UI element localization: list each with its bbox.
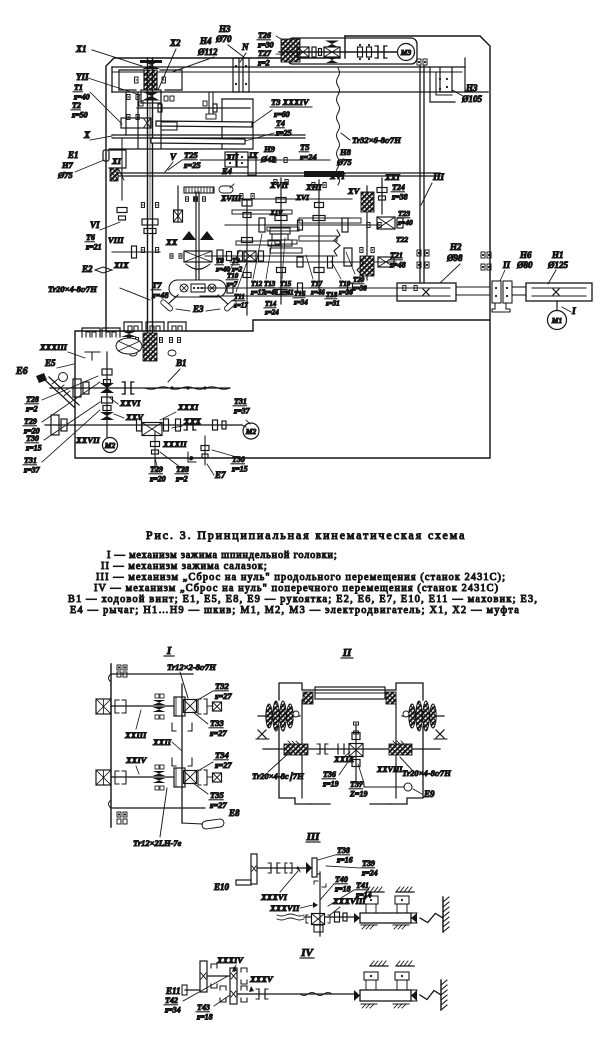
top motor housing [287, 38, 417, 64]
central shaft XXII [181, 684, 183, 823]
svg-text:T6: T6 [86, 233, 95, 242]
svg-text:Ø75: Ø75 [336, 157, 352, 167]
bearing pairs on right frame [481, 252, 485, 258]
svg-text:T15: T15 [280, 280, 292, 288]
shaft IV [237, 993, 354, 995]
svg-text:X2: X2 [169, 38, 181, 48]
rack T4 [151, 138, 245, 144]
svg-text:Tr32×6-8c∕7H: Tr32×6-8c∕7H [352, 135, 401, 145]
coupling III [270, 863, 272, 873]
svg-text:I: I [166, 645, 172, 657]
clamp gear X [184, 251, 212, 262]
shaft XXIII [111, 705, 174, 707]
svg-text:T28: T28 [26, 395, 39, 404]
svg-text:T29: T29 [24, 417, 37, 426]
svg-text:XVII: XVII [269, 180, 289, 190]
svg-text:z=15: z=15 [231, 465, 248, 474]
svg-text:XXXVII: XXXVII [269, 903, 300, 913]
svg-text:z=38: z=38 [352, 285, 367, 293]
clutch X2 [141, 90, 161, 103]
xbox feed2 [378, 257, 394, 267]
svg-text:Z=19: Z=19 [349, 790, 367, 799]
rail IV [360, 990, 411, 1001]
svg-text:T32: T32 [215, 681, 229, 691]
bracket pair vert III [314, 881, 318, 884]
svg-text:Tr20×4-8c∣7H: Tr20×4-8c∣7H [252, 771, 304, 781]
clamp bar II [315, 687, 385, 699]
xbox feed [377, 217, 395, 229]
housing XI box [109, 150, 126, 168]
svg-text:T3 XXXIV: T3 XXXIV [271, 97, 310, 107]
knob E9 [404, 783, 412, 791]
gear cluster c [227, 283, 233, 293]
gear cluster a [259, 218, 265, 232]
wall III [442, 897, 444, 932]
left inner bracket [125, 92, 127, 135]
shifter bar 6 [299, 236, 337, 241]
svg-text:z=41: z=41 [279, 289, 294, 297]
svg-text:T12: T12 [251, 280, 263, 288]
svg-text:XXXII: XXXII [162, 439, 187, 449]
top rail I [111, 673, 193, 675]
svg-text:E6: E6 [15, 366, 28, 377]
svg-text:z=38: z=38 [391, 193, 408, 202]
frame I left wall [110, 664, 112, 827]
svg-text:XX: XX [165, 237, 178, 247]
svg-text:XIX: XIX [113, 260, 129, 270]
support 2 IV [396, 965, 414, 967]
svg-text:T7: T7 [152, 280, 162, 290]
svg-text:III: III [432, 173, 444, 183]
svg-text:T10: T10 [227, 272, 239, 280]
funnel arcs [186, 264, 210, 269]
svg-text:Tr12×2-8c∕7H: Tr12×2-8c∕7H [167, 662, 216, 672]
xbox XXXII [142, 423, 162, 436]
top shaft M3 [279, 51, 398, 53]
svg-text:T23: T23 [398, 209, 410, 218]
clamp pairs under combs [128, 338, 131, 343]
svg-text:II: II [342, 647, 352, 659]
foot hatch III b [393, 924, 409, 926]
svg-text:T1: T1 [74, 83, 83, 92]
shaft XXXIV IV [207, 975, 230, 977]
gear cluster left edge [73, 379, 81, 397]
svg-text:XXXIV: XXXIV [216, 955, 244, 965]
pulley H3 bracket [440, 68, 452, 92]
svg-text:H7: H7 [61, 160, 74, 170]
svg-text:T14: T14 [265, 300, 277, 308]
svg-text:T34: T34 [215, 750, 229, 760]
svg-text:XXIII: XXIII [124, 730, 147, 740]
svg-text:T42: T42 [165, 996, 178, 1005]
svg-text:II: II [502, 260, 511, 270]
svg-text:z=21: z=21 [85, 243, 102, 252]
bevel hatched XX pair [182, 231, 196, 240]
svg-text:z=25: z=25 [275, 129, 292, 138]
worm wheel XX [143, 333, 157, 361]
vertical screw III shaft [419, 66, 421, 283]
right pulley stack [402, 715, 444, 717]
svg-text:T38: T38 [337, 846, 350, 855]
svg-text:H1: H1 [551, 250, 564, 260]
svg-text:Tr20×4-8c∕7H: Tr20×4-8c∕7H [48, 284, 97, 294]
svg-text:E1: E1 [67, 150, 79, 160]
bracket pair XXIV [115, 771, 119, 784]
svg-text:XXXVI: XXXVI [260, 892, 288, 902]
svg-text:VIII: VIII [108, 235, 124, 245]
bearing marks bottom I [117, 812, 121, 817]
support 1 III [366, 891, 384, 893]
motor M2 right [243, 423, 259, 439]
svg-text:E5: E5 [44, 358, 56, 368]
svg-text:z=18: z=18 [334, 885, 351, 894]
svg-text:z=34: z=34 [164, 1006, 181, 1015]
apron top combs [82, 328, 100, 337]
gear cluster b [297, 257, 303, 267]
svg-text:z=46: z=46 [263, 289, 278, 297]
rack anchor block [161, 122, 177, 130]
bearing housing XXIV [96, 770, 111, 785]
svg-text:XXXIII: XXXIII [39, 342, 68, 352]
bevel gears top III [306, 862, 312, 874]
wall IV [440, 980, 442, 1010]
svg-text:XVI: XVI [329, 171, 345, 181]
bevel gears X [325, 41, 339, 48]
svg-text:z=60: z=60 [273, 110, 290, 119]
spindle housing walls [137, 93, 139, 148]
svg-text:XXII: XXII [152, 737, 172, 747]
coupling II b [337, 744, 339, 754]
svg-text:T17: T17 [311, 280, 323, 288]
bracket left worm [85, 351, 100, 353]
vertical link x155 [154, 432, 156, 470]
svg-text:IV — механизм „Сброс на нуль": IV — механизм „Сброс на нуль" поперечног… [94, 583, 499, 594]
frame II [279, 683, 423, 700]
drum circle right [208, 284, 216, 292]
shaft XV vertical [366, 186, 368, 280]
xbox T32 [184, 700, 197, 713]
machine outer frame [106, 58, 340, 330]
bearing pairs gearbox [274, 180, 277, 185]
rack T3 [156, 121, 252, 127]
svg-text:T35: T35 [210, 790, 224, 800]
crossed box handle XXIV [213, 773, 222, 782]
central gear column [270, 228, 290, 234]
gearbox shaft IX [200, 159, 330, 161]
gear mid [100, 383, 114, 393]
shaft XXI vertical [381, 178, 383, 214]
pulley H5 hatched [281, 39, 300, 62]
svg-text:H3: H3 [218, 24, 231, 34]
svg-text:T37: T37 [350, 780, 364, 789]
apron shaft XXX [45, 424, 242, 426]
svg-text:Tr12×2LH-7e: Tr12×2LH-7e [133, 838, 182, 848]
svg-text:T31: T31 [234, 397, 247, 406]
svg-text:э: э [189, 454, 193, 462]
svg-text:T24: T24 [392, 183, 405, 192]
svg-text:XI: XI [111, 156, 122, 166]
screw shaft II [263, 748, 440, 750]
bevel bottom III [312, 914, 325, 925]
svg-text:Tr20×4-8c∕7H: Tr20×4-8c∕7H [402, 768, 451, 778]
gearbox cross shafts [222, 198, 352, 200]
shifter bar 5 [299, 218, 361, 223]
svg-text:T39: T39 [362, 859, 375, 868]
bracket marks shaft b [172, 758, 176, 766]
svg-text:T16: T16 [294, 290, 306, 298]
svg-text:XXX: XXX [183, 416, 201, 426]
svg-text:E10: E10 [213, 882, 230, 892]
svg-text:H6: H6 [519, 250, 532, 260]
shaft V horizontal [112, 172, 440, 174]
gear cluster left of rail III [335, 912, 340, 922]
svg-text:z=31: z=31 [325, 300, 340, 308]
drum center box [191, 284, 205, 292]
svg-text:T36: T36 [323, 770, 336, 779]
nut right hatched [389, 744, 412, 755]
bearing pq pairs [186, 197, 189, 202]
clamp feet [129, 350, 137, 356]
right anchor II [436, 730, 444, 738]
gear stack XV upper hatched [361, 192, 374, 212]
hatch wedge [110, 168, 118, 181]
gear block XXIV [174, 768, 185, 787]
coupling II a [319, 744, 321, 754]
svg-text:XXVII: XXVII [75, 435, 100, 445]
svg-text:IV: IV [300, 947, 314, 959]
svg-text:VI: VI [90, 220, 100, 230]
shifter bar 4 [275, 240, 297, 244]
crossed box handle XXIII [213, 702, 222, 711]
bearing housing XXIII [96, 699, 111, 714]
mount bracket II [492, 303, 510, 312]
svg-text:Ø112: Ø112 [197, 47, 218, 57]
svg-text:Ø98: Ø98 [446, 253, 463, 263]
svg-text:z=37: z=37 [233, 407, 251, 416]
svg-text:z=20: z=20 [149, 475, 166, 484]
spring IV [420, 991, 441, 1000]
svg-text:T29: T29 [150, 465, 163, 474]
foot hatch III a [361, 924, 377, 926]
coupling on XXVI [124, 382, 126, 394]
upper long shaft [137, 107, 250, 109]
bracket pair right XXIV [198, 770, 201, 785]
svg-text:H8: H8 [339, 147, 352, 157]
gear column IV [230, 968, 237, 1004]
svg-text:z=15: z=15 [25, 444, 42, 453]
svg-text:T8: T8 [216, 257, 224, 265]
hanging bracket x210 [208, 93, 210, 114]
bearing housing XII IX [225, 152, 236, 167]
capsule E4 [219, 186, 233, 193]
hatch corners II [303, 692, 313, 704]
bottom rail I [111, 807, 205, 809]
clutch X1 [142, 61, 160, 69]
screw nut XXIII [153, 700, 166, 705]
bearing marks top I [117, 665, 121, 670]
svg-text:XXXI: XXXI [177, 402, 199, 412]
svg-text:IX: IX [248, 150, 258, 160]
gear pair right [176, 419, 181, 431]
spindle gears [142, 219, 158, 225]
svg-text:T25: T25 [184, 150, 198, 160]
motor M1 [548, 311, 567, 330]
bracket pairs IV b [241, 968, 247, 972]
svg-text:E2: E2 [81, 264, 93, 274]
shaft X horizontal [112, 134, 305, 136]
bearing bd [417, 59, 421, 65]
svg-text:z=7: z=7 [226, 281, 238, 289]
svg-text:XIV: XIV [269, 208, 284, 217]
coupling blocks II [492, 281, 501, 303]
svg-text:T26: T26 [258, 31, 271, 40]
gear y256 right [344, 248, 352, 266]
svg-text:T27: T27 [258, 49, 272, 58]
gearbox vertical shaft A [246, 200, 248, 315]
svg-text:T5: T5 [300, 142, 310, 152]
svg-text:z=2: z=2 [25, 405, 38, 414]
svg-text:М1: М1 [551, 316, 562, 325]
gear on VI [117, 208, 127, 213]
wavy break IV [300, 993, 332, 996]
svg-text:T11: T11 [234, 293, 245, 301]
spindle spring gear [144, 70, 157, 90]
head casting bottom line [109, 148, 253, 150]
shaft horiz III [257, 867, 312, 869]
svg-text:z=18: z=18 [196, 1013, 213, 1022]
svg-text:Ø75: Ø75 [57, 170, 73, 180]
svg-text:T22: T22 [396, 235, 408, 244]
svg-text:I — механизм зажима шпиндельно: I — механизм зажима шпиндельной головки; [107, 550, 338, 561]
top beam housing [112, 66, 465, 68]
pointer lines fractions [253, 234, 262, 279]
bracket marks III [285, 863, 287, 873]
spring III [420, 914, 443, 923]
svg-text:E4: E4 [221, 166, 232, 176]
svg-text:V: V [170, 152, 177, 162]
svg-text:z=2: z=2 [257, 59, 270, 68]
gearbox vertical shaft C [318, 180, 320, 290]
svg-text:М3: М3 [400, 48, 412, 57]
shifter bar 7 [270, 248, 302, 253]
screw B1 wavy [145, 387, 230, 390]
svg-text:z=27: z=27 [209, 800, 227, 810]
rail H2 left [397, 283, 456, 301]
vertical shaft III [319, 872, 321, 936]
svg-text:XIII: XIII [305, 182, 322, 192]
svg-text:XVIII: XVIII [220, 194, 242, 203]
svg-text:X1: X1 [75, 44, 87, 54]
svg-text:T33: T33 [210, 718, 224, 728]
svg-text:H4: H4 [199, 36, 212, 46]
shaft XXIV [111, 776, 174, 778]
svg-text:z=48: z=48 [389, 261, 406, 270]
shifter bar 2 [267, 227, 299, 231]
foot hatch IV b [393, 1003, 409, 1005]
svg-text:М2: М2 [104, 441, 116, 450]
svg-text:T18: T18 [326, 291, 338, 299]
svg-text:Ø105: Ø105 [461, 94, 482, 104]
foot hatch IV a [361, 1003, 377, 1005]
svg-text:T21: T21 [390, 251, 403, 260]
bracket symbols [188, 452, 196, 462]
svg-text:z=46: z=46 [310, 289, 325, 297]
svg-text:z=34: z=34 [293, 299, 308, 307]
svg-text:H2: H2 [449, 242, 462, 252]
plate 1 IV [200, 961, 207, 992]
svg-text:Е4 — рычаг; Н1…Н9 — шкив; М1,: Е4 — рычаг; Н1…Н9 — шкив; М1, М2, М3 — э… [70, 605, 520, 616]
svg-text:T28: T28 [176, 465, 189, 474]
hook XXVIII [356, 779, 364, 784]
svg-text:Рис. 3. Принципиальная кинемат: Рис. 3. Принципиальная кинематическая сх… [146, 528, 466, 542]
svg-text:T30: T30 [26, 434, 39, 443]
svg-text:z=48: z=48 [151, 290, 169, 300]
svg-text:Ø80: Ø80 [516, 260, 533, 270]
center gear II [355, 726, 357, 779]
svg-text:XXIX: XXIX [333, 754, 355, 764]
lever E3 right [218, 295, 230, 306]
svg-text:N: N [241, 42, 249, 52]
svg-text:YII: YII [76, 72, 89, 82]
svg-text:XXIV: XXIV [125, 755, 148, 765]
svg-text:z=37: z=37 [23, 466, 41, 475]
svg-text:T43: T43 [197, 1003, 210, 1012]
svg-text:z=24: z=24 [361, 869, 378, 878]
shaft bottom III [277, 914, 304, 916]
bracket pair XXIII [115, 700, 119, 713]
svg-text:T41: T41 [356, 881, 369, 890]
svg-text:z=50: z=50 [71, 111, 88, 120]
apron shaft XXVI [50, 387, 230, 389]
bracket pairs IV c [220, 986, 226, 990]
shifter bar 3 [236, 241, 280, 245]
xbox T34 [184, 771, 197, 784]
spring coil 2 [357, 258, 363, 282]
svg-text:II — механизм зажима салазок;: II — механизм зажима салазок; [101, 561, 268, 572]
svg-text:XXI: XXI [384, 172, 400, 182]
svg-text:T13: T13 [264, 280, 276, 288]
svg-text:XVI: XVI [295, 193, 310, 202]
svg-text:H3: H3 [465, 83, 478, 93]
bearing column N [233, 58, 239, 92]
gear pair top [312, 47, 316, 57]
bracket marks shaft a [172, 723, 176, 731]
svg-text:XXXVIII: XXXVIII [332, 896, 366, 906]
svg-text:Ø125: Ø125 [547, 260, 568, 270]
svg-text:XXXV: XXXV [249, 974, 274, 984]
svg-text:T4: T4 [276, 119, 285, 128]
shaft VIII [112, 251, 160, 253]
svg-text:T20: T20 [353, 276, 365, 284]
shifter bar 1 [232, 210, 292, 214]
svg-text:XII: XII [225, 152, 239, 162]
svg-text:z=2: z=2 [175, 475, 188, 484]
svg-text:III: III [306, 831, 321, 843]
shaft VI vertical left [121, 138, 123, 200]
svg-text:z=17: z=17 [250, 289, 265, 297]
svg-text:E7: E7 [214, 470, 226, 480]
gear stack XV lower hatched [360, 256, 374, 276]
left pulley stack [258, 715, 300, 717]
svg-text:T9: T9 [232, 257, 240, 265]
coupling [377, 46, 379, 58]
svg-text:z=40: z=40 [397, 218, 413, 227]
svg-text:E11: E11 [165, 986, 181, 996]
svg-text:z=19: z=19 [322, 780, 339, 789]
xbox y256 [244, 251, 256, 261]
svg-text:H9: H9 [263, 144, 276, 154]
spring coil 1 [334, 230, 340, 256]
